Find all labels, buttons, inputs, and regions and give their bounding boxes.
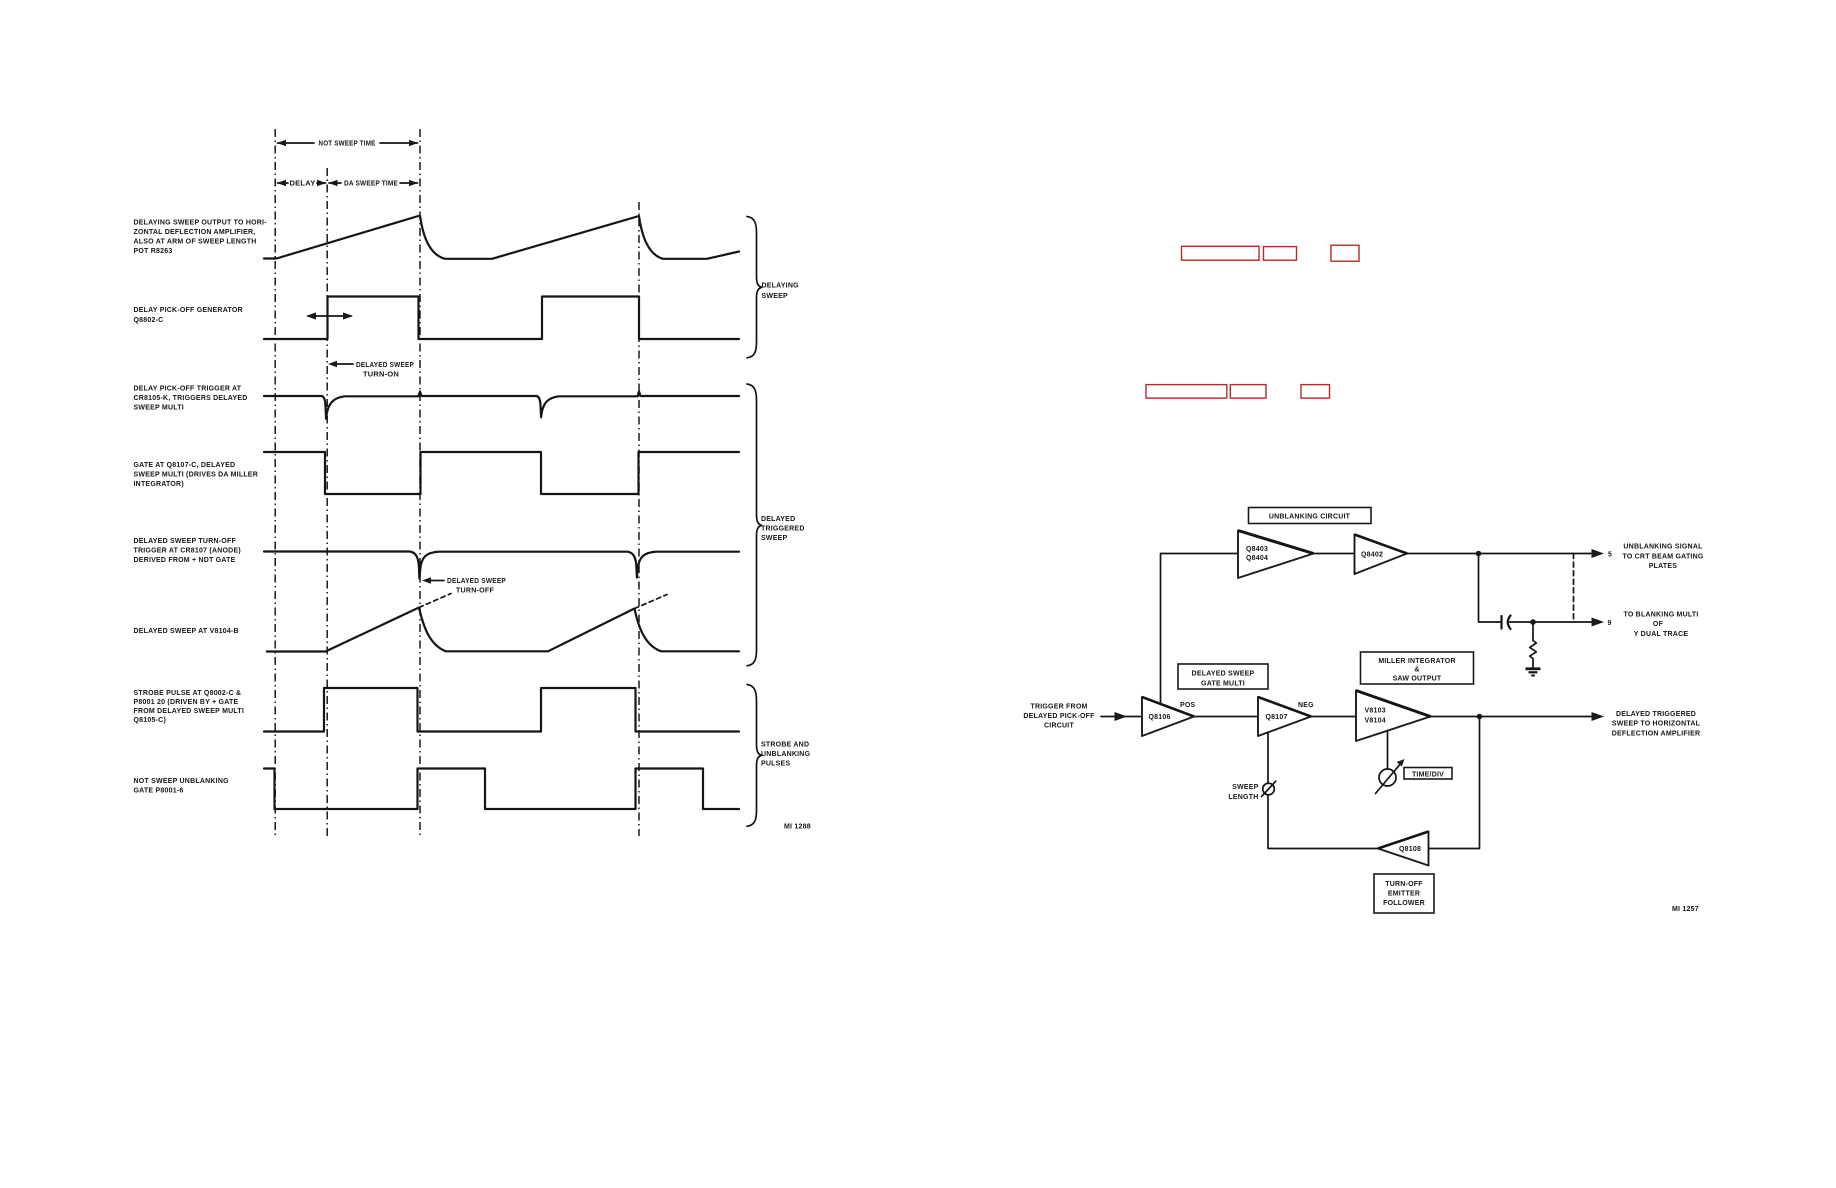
leader delayed sweep turn-on <box>328 361 414 379</box>
svg-text:SWEEP: SWEEP <box>762 293 788 300</box>
svg-text:TURN-OFF: TURN-OFF <box>456 588 495 595</box>
svg-text:TO BLANKING MULTI: TO BLANKING MULTI <box>1623 611 1698 618</box>
wire junction down to capacitor line <box>1479 554 1501 623</box>
svg-text:DELAYED PICK-OFF: DELAYED PICK-OFF <box>1023 713 1095 720</box>
svg-text:LENGTH: LENGTH <box>1228 794 1258 801</box>
svg-text:TRIGGER FROM: TRIGGER FROM <box>1030 704 1087 711</box>
node sweep junction <box>1477 714 1483 720</box>
op-amp Q8108 <box>1378 832 1429 866</box>
svg-text:DELAYING: DELAYING <box>762 283 800 290</box>
timeline dash-dot line 2 <box>326 168 328 836</box>
svg-text:GATE P8001-6: GATE P8001-6 <box>134 788 184 795</box>
box miller integrator <box>1361 652 1474 684</box>
svg-text:POT R8263: POT R8263 <box>134 248 173 255</box>
svg-text:DERIVED FROM + NDT GATE: DERIVED FROM + NDT GATE <box>134 557 236 564</box>
wire junction down to Q8108 <box>1429 717 1480 849</box>
potentiometer time/div <box>1376 759 1405 794</box>
wire Q8107 to V8103 <box>1311 716 1356 718</box>
wire V8103 down to time/div <box>1387 731 1389 770</box>
waveform row4 gate at Q8107-C <box>264 452 739 494</box>
svg-text:ALSO AT ARM OF SWEEP LENGTH: ALSO AT ARM OF SWEEP LENGTH <box>134 239 257 246</box>
waveform row3 delay pick-off trigger <box>264 392 739 419</box>
svg-text:SWEEP: SWEEP <box>761 535 787 542</box>
wire Q8403 to Q8402 <box>1314 553 1355 555</box>
wire unblanking output <box>1407 553 1592 555</box>
red box F <box>1301 385 1330 399</box>
svg-text:Q8403: Q8403 <box>1246 546 1268 553</box>
svg-text:Y DUAL TRACE: Y DUAL TRACE <box>1634 631 1689 638</box>
svg-text:STROBE PULSE AT Q8002-C &: STROBE PULSE AT Q8002-C & <box>134 690 242 697</box>
resistor to ground <box>1530 622 1537 668</box>
svg-text:TIME/DIV: TIME/DIV <box>1412 772 1444 779</box>
svg-text:PULSES: PULSES <box>761 761 790 768</box>
svg-text:Q8404: Q8404 <box>1246 555 1268 562</box>
svg-text:MI 1257: MI 1257 <box>1672 906 1699 913</box>
svg-text:INTEGRATOR): INTEGRATOR) <box>134 481 184 488</box>
arrow unblanking output <box>1592 549 1605 558</box>
wire capacitor to arrow 9 <box>1510 621 1593 623</box>
svg-text:TURN-ON: TURN-ON <box>363 372 399 379</box>
svg-text:NEG: NEG <box>1298 702 1314 709</box>
wire Q8106 to Q8107 <box>1194 716 1258 718</box>
op-amp Q8107 <box>1258 697 1311 736</box>
svg-text:SWEEP MULTI: SWEEP MULTI <box>134 405 184 412</box>
arrow to blanking multi <box>1592 618 1605 627</box>
svg-text:NOT SWEEP TIME: NOT SWEEP TIME <box>319 141 376 148</box>
svg-text:UNBLANKING CIRCUIT: UNBLANKING CIRCUIT <box>1269 514 1351 521</box>
timeline dash-dot line 1 <box>274 129 276 836</box>
dashed wire pin5 to pin9 <box>1573 554 1575 623</box>
svg-text:PLATES: PLATES <box>1649 563 1678 570</box>
wire sweep output <box>1431 716 1593 718</box>
svg-text:Q8106: Q8106 <box>1149 714 1171 721</box>
brace delayed triggered sweep <box>747 384 762 666</box>
op-amp Q8402 <box>1355 535 1408 575</box>
svg-text:TRIGGER AT CR8107 (ANODE): TRIGGER AT CR8107 (ANODE) <box>134 548 241 555</box>
svg-text:UNBLANKING SIGNAL: UNBLANKING SIGNAL <box>1623 544 1703 551</box>
svg-text:DELAYED SWEEP TURN-OFF: DELAYED SWEEP TURN-OFF <box>134 538 237 545</box>
dashed overshoot 2 <box>635 595 668 609</box>
timeline dash-dot line 3 <box>419 129 421 836</box>
svg-text:DELAYED SWEEP AT V8104-B: DELAYED SWEEP AT V8104-B <box>134 628 239 635</box>
red box B <box>1264 247 1297 261</box>
arrow sweep output <box>1592 712 1605 721</box>
box turn-off emitter follower <box>1374 874 1434 913</box>
svg-text:TURN-OFF: TURN-OFF <box>1385 881 1423 888</box>
svg-text:V8104: V8104 <box>1365 718 1386 725</box>
svg-text:SWEEP MULTI (DRIVES DA MILLER: SWEEP MULTI (DRIVES DA MILLER <box>134 472 258 479</box>
svg-text:DELAYED TRIGGERED: DELAYED TRIGGERED <box>1616 711 1696 718</box>
red box A <box>1182 246 1260 260</box>
box time/div <box>1404 768 1452 780</box>
svg-text:DELAY PICK-OFF TRIGGER AT: DELAY PICK-OFF TRIGGER AT <box>134 386 242 393</box>
svg-text:V8103: V8103 <box>1365 708 1386 715</box>
dimension NOT SWEEP TIME <box>277 140 418 148</box>
potentiometer sweep length <box>1262 781 1276 796</box>
double arrow delay adjust <box>306 312 353 319</box>
svg-text:FOLLOWER: FOLLOWER <box>1383 900 1425 907</box>
dimension DA SWEEP TIME <box>329 180 419 188</box>
svg-text:DELAYING SWEEP OUTPUT TO HORI-: DELAYING SWEEP OUTPUT TO HORI- <box>134 220 268 227</box>
svg-text:NOT SWEEP UNBLANKING: NOT SWEEP UNBLANKING <box>134 778 230 785</box>
waveform row2 delay pick-off generator gate <box>264 297 739 340</box>
svg-text:Q8802-C: Q8802-C <box>134 317 164 324</box>
svg-text:&: & <box>1414 667 1419 674</box>
box unblanking circuit <box>1249 508 1372 524</box>
svg-text:POS: POS <box>1180 702 1196 709</box>
svg-text:MI 1288: MI 1288 <box>784 824 811 831</box>
svg-text:STROBE AND: STROBE AND <box>761 742 809 749</box>
waveform row5 delayed sweep turn-off trigger <box>264 552 739 579</box>
svg-text:CIRCUIT: CIRCUIT <box>1044 723 1074 730</box>
wire Q8107 feedback down <box>1267 733 1269 784</box>
node blanking junction <box>1530 619 1536 625</box>
wire trigger input with arrow <box>1101 716 1142 718</box>
dashed overshoot 1 <box>419 594 451 608</box>
svg-text:TRIGGERED: TRIGGERED <box>761 526 805 533</box>
waveform row7 strobe pulse <box>264 688 739 732</box>
svg-text:EMITTER: EMITTER <box>1388 891 1420 898</box>
svg-text:Q8108: Q8108 <box>1399 846 1421 853</box>
svg-text:SWEEP TO HORIZONTAL: SWEEP TO HORIZONTAL <box>1612 721 1701 728</box>
svg-text:Q8105-C): Q8105-C) <box>134 717 167 724</box>
op-amp V8103 V8104 <box>1356 691 1431 742</box>
svg-text:DEFLECTION AMPLIFIER: DEFLECTION AMPLIFIER <box>1612 730 1701 737</box>
svg-text:ZONTAL DEFLECTION AMPLIFIER,: ZONTAL DEFLECTION AMPLIFIER, <box>134 229 256 236</box>
waveform row8 not sweep unblanking gate <box>264 769 739 810</box>
op-amp Q8106 <box>1142 697 1194 736</box>
svg-text:DELAYED SWEEP: DELAYED SWEEP <box>1192 671 1255 678</box>
svg-text:TO CRT BEAM GATING: TO CRT BEAM GATING <box>1622 553 1703 560</box>
timeline dash-dot line 4 <box>638 202 640 836</box>
svg-text:Q8107: Q8107 <box>1266 714 1288 721</box>
box delayed sweep gate multi <box>1178 664 1268 689</box>
ground <box>1526 669 1541 676</box>
red box C <box>1331 245 1359 261</box>
red box E <box>1230 385 1266 399</box>
wire pot down and feedback bottom <box>1268 795 1378 849</box>
svg-text:DA SWEEP TIME: DA SWEEP TIME <box>344 181 398 188</box>
svg-text:GATE MULTI: GATE MULTI <box>1201 681 1245 688</box>
svg-text:MILLER INTEGRATOR: MILLER INTEGRATOR <box>1378 658 1455 665</box>
svg-text:FROM DELAYED SWEEP MULTI: FROM DELAYED SWEEP MULTI <box>134 708 245 715</box>
brace delaying sweep <box>747 217 762 358</box>
svg-text:OF: OF <box>1653 621 1664 628</box>
node unblanking junction <box>1476 551 1482 557</box>
svg-text:CR8105-K, TRIGGERS DELAYED: CR8105-K, TRIGGERS DELAYED <box>134 395 248 402</box>
svg-text:Q8402: Q8402 <box>1361 552 1383 559</box>
waveform row1 delaying sweep sawtooth <box>264 216 739 259</box>
red box D <box>1146 385 1227 399</box>
svg-text:SAW OUTPUT: SAW OUTPUT <box>1393 676 1442 683</box>
svg-text:DELAY: DELAY <box>290 181 316 188</box>
svg-text:9: 9 <box>1608 620 1612 627</box>
svg-text:DELAYED SWEEP: DELAYED SWEEP <box>356 362 414 369</box>
brace strobe and unblanking pulses <box>747 685 762 827</box>
dimension DELAY <box>277 180 326 188</box>
wire unblanking branch vertical <box>1161 554 1239 705</box>
svg-text:GATE AT Q8107-C, DELAYED: GATE AT Q8107-C, DELAYED <box>134 462 236 469</box>
op-amp Q8403 Q8404 <box>1238 531 1314 579</box>
leader delayed sweep turn-off <box>422 577 506 594</box>
capacitor C <box>1502 616 1511 630</box>
svg-text:DELAYED: DELAYED <box>761 516 795 523</box>
waveform row6 delayed sweep ramp <box>267 608 739 652</box>
svg-text:P8001 20 (DRIVEN BY + GATE: P8001 20 (DRIVEN BY + GATE <box>134 699 239 706</box>
svg-text:5: 5 <box>1608 552 1612 559</box>
svg-text:DELAYED SWEEP: DELAYED SWEEP <box>447 578 506 585</box>
svg-text:SWEEP: SWEEP <box>1232 784 1258 791</box>
svg-text:UNBLANKING: UNBLANKING <box>761 751 811 758</box>
svg-text:DELAY PICK-OFF GENERATOR: DELAY PICK-OFF GENERATOR <box>134 307 243 314</box>
